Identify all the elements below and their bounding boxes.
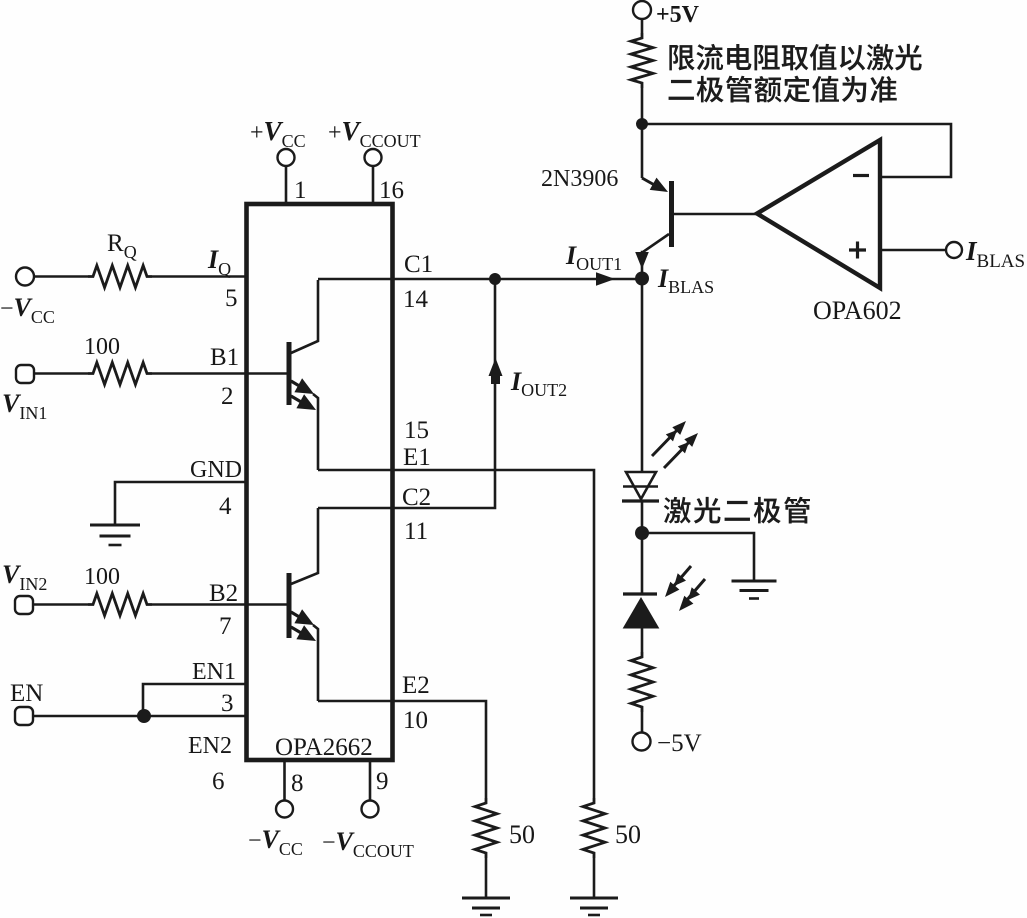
light incident arrow 1 <box>672 566 691 588</box>
Q1 base wire to op-amp output <box>674 213 757 216</box>
svg-text:3: 3 <box>221 690 234 717</box>
svg-text:100: 100 <box>84 564 120 590</box>
Q-B emitter arrow 2 <box>291 627 308 637</box>
svg-text:2N3906: 2N3906 <box>541 166 618 192</box>
Q1 emitter wire from node A <box>641 124 644 178</box>
ground (pin 4) <box>90 524 140 527</box>
svg-text:EN2: EN2 <box>188 733 232 759</box>
wire R3 to ground <box>485 858 488 898</box>
wire feedback node A to op-amp inverting input <box>642 124 951 177</box>
terminal +5V <box>633 1 651 19</box>
terminal Vin2 <box>15 596 33 614</box>
wire E1 (pin 15) <box>318 470 594 798</box>
wire EN to pin 6 <box>33 715 246 718</box>
annotation line 1: current-limit resistor note <box>669 44 921 71</box>
svg-text:C2: C2 <box>402 484 431 511</box>
terminal -5V <box>633 733 651 751</box>
transistor Q-B (lower OTA cell) base bar <box>287 573 292 638</box>
Q-B collector wire to C2 <box>291 508 318 584</box>
resistor R6 <box>631 652 653 712</box>
wire R2 to pin 7 / base B2 <box>152 603 287 606</box>
plus input mark <box>849 248 866 251</box>
svg-text:GND: GND <box>190 457 242 483</box>
terminal Vin1 <box>16 365 34 383</box>
svg-text:9: 9 <box>376 768 389 795</box>
svg-text:C1: C1 <box>404 251 433 278</box>
wire -Vcc to Rq <box>34 275 88 278</box>
wire photodiode to R6 <box>641 628 644 652</box>
junction C1/C2 node <box>489 273 501 285</box>
svg-text:14: 14 <box>403 286 429 313</box>
ground (laser diode) <box>732 580 777 583</box>
Q1 collector wire <box>642 234 669 272</box>
svg-text:8: 8 <box>291 770 304 797</box>
junction EN node <box>137 709 151 723</box>
Q1 emitter arrow <box>642 178 658 187</box>
op-amp U2 OPA602 triangle <box>757 140 880 288</box>
wire E2 (pin 10) <box>318 701 486 798</box>
svg-text:4: 4 <box>219 493 232 520</box>
Q-A collector wire to C1 <box>291 280 318 353</box>
light incident arrow 2 <box>686 579 705 601</box>
svg-text:50: 50 <box>615 820 641 849</box>
wire EN1 pin 3 <box>143 684 246 716</box>
arrow Iout2 <box>489 358 503 376</box>
Q-A emitter arrow 2 <box>291 396 308 406</box>
resistor R2 100 <box>88 594 152 616</box>
wire R6 to -5V <box>641 712 644 733</box>
svg-text:5: 5 <box>225 285 238 312</box>
svg-text:1: 1 <box>294 177 307 204</box>
wire R1 to pin 2 / base B1 <box>152 372 287 375</box>
terminal EN <box>15 707 33 725</box>
resistor Rq <box>88 266 152 288</box>
svg-text:B2: B2 <box>209 580 238 607</box>
wire Vin1 to R1 <box>34 372 88 375</box>
junction node B <box>635 526 649 540</box>
Q-B emitter wire to E2 <box>313 625 318 701</box>
transistor Q-A (upper OTA cell) base bar <box>287 342 292 405</box>
svg-text:EN: EN <box>10 680 43 707</box>
photodiode D2 <box>623 592 657 595</box>
svg-text:+5V: +5V <box>656 2 700 28</box>
terminal -Vccout (pin 9) <box>362 801 379 818</box>
ground (R4) <box>570 897 618 900</box>
wire GND pin 4 <box>115 482 246 524</box>
svg-text:OPA2662: OPA2662 <box>275 734 373 761</box>
transistor Q1 2N3906 base bar <box>669 181 674 247</box>
wire C1 (pin 14) to Iblas node <box>318 278 642 281</box>
junction Iblas node <box>635 272 649 286</box>
wire R5 to node A <box>641 88 644 124</box>
terminal -Vcc (pin 8) <box>276 801 293 818</box>
wire +5V to R5 <box>641 19 644 33</box>
wire node B to ground <box>642 533 754 581</box>
wire C2 (pin 11) up to C1 node (Iout2 path) <box>318 279 495 508</box>
svg-text:2: 2 <box>221 383 234 410</box>
pin 9 stub <box>369 762 372 801</box>
svg-text:50: 50 <box>509 820 535 849</box>
minus input mark <box>853 174 869 177</box>
wire laser diode to node B <box>641 501 644 594</box>
svg-text:10: 10 <box>403 707 428 734</box>
svg-text:11: 11 <box>404 518 428 545</box>
wire Rq to pin 5 <box>152 275 246 278</box>
wire R4 to ground <box>593 858 596 898</box>
terminal +Vcc (pin 1) <box>278 149 295 166</box>
ground (R3) <box>462 897 510 900</box>
svg-text:B1: B1 <box>210 344 239 371</box>
svg-text:7: 7 <box>219 613 232 640</box>
light emission arrow 2 <box>664 438 693 468</box>
arrow Iout1 on C1 wire <box>596 272 615 286</box>
label: laser diode <box>664 497 810 524</box>
terminal +Vccout (pin 16) <box>365 149 382 166</box>
Q-B emitter arrow 1 <box>291 612 306 621</box>
Q-A emitter arrow 1 <box>291 381 306 390</box>
Q-A emitter wire to E1 <box>313 394 318 470</box>
arrow bias current down <box>635 252 649 269</box>
svg-text:EN1: EN1 <box>192 659 236 685</box>
annotation line 2 <box>669 76 897 103</box>
wire Iblas node to laser diode <box>641 285 644 471</box>
laser diode D1 <box>626 472 656 499</box>
svg-text:E2: E2 <box>402 672 430 699</box>
svg-text:E1: E1 <box>403 444 431 471</box>
pin 8 stub <box>283 762 286 801</box>
op-amp U1 OPA2662 body <box>247 204 393 760</box>
wire Vin2 to R2 <box>33 603 88 606</box>
svg-text:100: 100 <box>84 334 120 360</box>
wire plus input to Iblas terminal <box>881 249 946 252</box>
terminal -Vcc input <box>16 268 34 286</box>
pin 1 stub <box>285 166 288 204</box>
resistor R4 50 (E1 load) <box>583 798 605 858</box>
svg-text:−5V: −5V <box>657 730 702 757</box>
resistor R3 50 (E2 load) <box>475 798 497 858</box>
svg-text:OPA602: OPA602 <box>813 296 902 325</box>
svg-text:15: 15 <box>404 417 429 444</box>
svg-text:6: 6 <box>212 768 225 795</box>
pin 16 stub <box>372 166 375 204</box>
resistor R1 100 <box>88 363 152 385</box>
light emission arrow 1 <box>652 426 681 456</box>
terminal Iblas control <box>946 242 962 258</box>
svg-text:16: 16 <box>379 177 404 204</box>
junction node A <box>636 118 648 130</box>
resistor R5 current limiting <box>631 33 653 88</box>
